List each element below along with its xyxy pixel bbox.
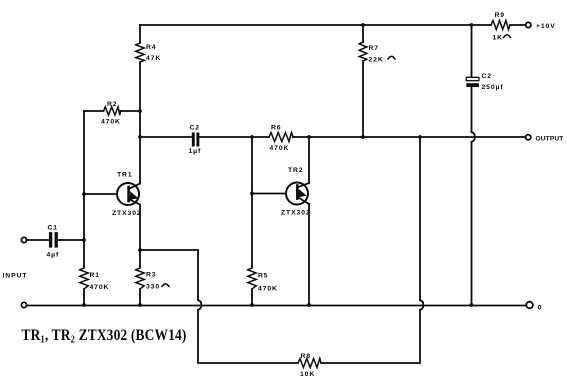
junction TR2 base bbox=[250, 192, 254, 196]
svg-text:TR1, TR2 ZTX302 (BCW14): TR1, TR2 ZTX302 (BCW14) bbox=[22, 327, 187, 345]
resistor R2 bbox=[104, 107, 121, 115]
svg-text:22K: 22K bbox=[369, 57, 384, 64]
wire top rail to C2 decoupling bbox=[471, 25, 473, 77]
wire collector column of TR1 (x=140) upper bbox=[139, 25, 141, 43]
svg-text:INPUT: INPUT bbox=[3, 273, 28, 280]
wire emitter node down to R3 bbox=[139, 250, 141, 268]
junction R7 / top rail bbox=[361, 23, 365, 27]
svg-text:R1: R1 bbox=[90, 272, 101, 279]
svg-text:+10V: +10V bbox=[536, 23, 556, 30]
terminal +10V bbox=[526, 22, 531, 27]
terminal output bbox=[526, 135, 531, 140]
svg-text:C1: C1 bbox=[48, 224, 59, 231]
svg-text:R9: R9 bbox=[495, 12, 506, 19]
wire R2 right to collector column bbox=[121, 110, 141, 112]
capacitor C2 coupling bbox=[193, 134, 198, 145]
wire collector node to C2 bbox=[140, 136, 192, 138]
wire R9 to +10V terminal bbox=[510, 24, 525, 26]
junction C2 decoupling / ground rail bbox=[470, 303, 474, 307]
resistor R6 bbox=[269, 133, 293, 142]
wire TR2 emitter to ground rail bbox=[308, 204, 310, 305]
junction right riser / output line bbox=[418, 135, 422, 139]
junction R2/collector column bbox=[138, 109, 142, 113]
svg-text:R5: R5 bbox=[258, 273, 269, 280]
svg-text:470K: 470K bbox=[258, 286, 278, 293]
junction emitter node bbox=[138, 248, 142, 252]
svg-text:R8: R8 bbox=[301, 353, 312, 360]
wire C2 decoupling to ground rail bbox=[471, 142, 473, 305]
svg-text:250µf: 250µf bbox=[482, 84, 504, 91]
wire ground rail bbox=[27, 305, 527, 307]
wire R1 bottom to ground rail bbox=[83, 289, 85, 305]
svg-text:R2: R2 bbox=[107, 101, 118, 108]
svg-text:TR2: TR2 bbox=[288, 167, 304, 174]
wire TR2 collector up bbox=[308, 137, 310, 183]
junction TR2 base node bbox=[250, 135, 254, 139]
wire top supply rail bbox=[140, 24, 491, 26]
terminal ground right bbox=[526, 302, 533, 309]
junction R3 / ground rail bbox=[138, 303, 142, 307]
wire TR2 base column x=252 bbox=[251, 137, 253, 268]
wire C2 decoupling down to output line crossing bbox=[471, 87, 473, 132]
svg-text:1K: 1K bbox=[493, 35, 504, 42]
junction TR2 collector / output line bbox=[307, 135, 311, 139]
svg-text:0: 0 bbox=[538, 305, 542, 312]
junction base column / C1 bbox=[82, 238, 86, 242]
junction R7 / output line bbox=[361, 135, 365, 139]
wire base column x=84 bbox=[83, 111, 85, 268]
wire R4 bottom to TR1 collector bbox=[139, 62, 141, 184]
wire R7 bottom to output line bbox=[362, 61, 364, 137]
wire hop over ground rail left bbox=[198, 300, 201, 310]
transistor TR2 bbox=[252, 183, 309, 205]
capacitor C2 decoupling 250uf bbox=[466, 77, 479, 87]
resistor R1 bbox=[80, 268, 88, 289]
svg-text:OUTPUT: OUTPUT bbox=[536, 135, 564, 142]
svg-text:C2: C2 bbox=[482, 73, 493, 80]
ohm arch for R7 bbox=[388, 56, 395, 59]
svg-text:1µf: 1µf bbox=[189, 148, 202, 155]
wire TR1 emitter down bbox=[139, 205, 141, 251]
transistor TR1 bbox=[84, 183, 140, 205]
svg-text:ZTX302: ZTX302 bbox=[112, 210, 142, 217]
svg-text:C2: C2 bbox=[190, 125, 201, 132]
wire right riser to output line bbox=[419, 137, 421, 300]
svg-text:470K: 470K bbox=[270, 145, 290, 152]
wire R7 top bbox=[362, 25, 364, 42]
wire feedback branch to R8 loop bbox=[198, 310, 298, 363]
ohm arch for R9 bbox=[504, 35, 511, 38]
svg-text:R6: R6 bbox=[271, 125, 282, 132]
svg-text:R4: R4 bbox=[146, 44, 157, 51]
svg-text:470K: 470K bbox=[101, 119, 121, 126]
svg-text:4µf: 4µf bbox=[47, 252, 60, 259]
svg-text:ZTX302: ZTX302 bbox=[281, 210, 311, 217]
wire C1 to base column bbox=[58, 239, 84, 241]
resistor R5 bbox=[248, 268, 256, 289]
wire feedback branch down from emitter node bbox=[197, 250, 199, 300]
svg-text:10K: 10K bbox=[300, 371, 315, 378]
ohm arch for R3 bbox=[162, 284, 169, 287]
wire emitter node to feedback branch bbox=[140, 249, 198, 251]
svg-text:R3: R3 bbox=[146, 272, 157, 279]
svg-text:R7: R7 bbox=[369, 45, 380, 52]
junction R5 / ground rail bbox=[250, 303, 254, 307]
wire R5 bottom to ground rail bbox=[251, 289, 253, 305]
wire hop over output line bbox=[472, 132, 475, 142]
svg-text:470K: 470K bbox=[90, 284, 110, 291]
junction TR2 emitter / ground rail bbox=[307, 303, 311, 307]
wire C2 to TR2 base node bbox=[199, 136, 269, 138]
capacitor C1 bbox=[51, 234, 57, 246]
wire hop over ground rail right bbox=[420, 300, 423, 310]
wire R8 to right riser bbox=[321, 310, 420, 363]
wire R6 to output rail bbox=[293, 136, 525, 138]
terminal input bbox=[21, 237, 26, 242]
resistor R8 bbox=[298, 359, 321, 368]
resistor R9 bbox=[491, 21, 510, 30]
junction C2 decoupling / top rail bbox=[470, 23, 474, 27]
wire R3 bottom to ground rail bbox=[139, 289, 141, 305]
resistor R3 bbox=[136, 268, 144, 289]
junction base column / TR1 base bbox=[82, 192, 86, 196]
junction R1 / ground rail bbox=[82, 303, 86, 307]
wire input terminal to C1 bbox=[27, 239, 49, 241]
junction collector node / output line bbox=[138, 135, 142, 139]
wire R2 left to base column bbox=[84, 110, 104, 112]
svg-text:TR1: TR1 bbox=[117, 172, 133, 179]
resistor R7 bbox=[359, 42, 366, 61]
svg-text:47K: 47K bbox=[146, 55, 161, 62]
svg-text:330: 330 bbox=[146, 284, 160, 291]
terminal ground left bbox=[21, 302, 26, 307]
resistor R4 bbox=[136, 43, 144, 62]
